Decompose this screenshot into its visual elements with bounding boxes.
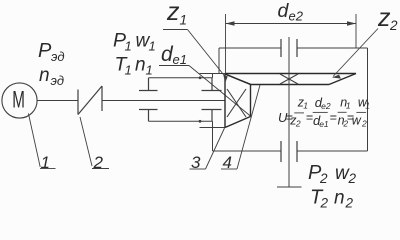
bevel wheel 4 outline [225,74,356,85]
svg-text:3: 3 [191,153,201,172]
label z2 with leader [332,4,398,79]
label P_ed [38,40,65,64]
bearing left upper [139,78,158,91]
housing step top horizontal [200,73,226,75]
dimension d_e2 extension right [355,14,357,48]
housing frame top line [149,77,213,79]
svg-text:2: 2 [345,196,354,210]
label n_ed [39,65,64,88]
label n2 [334,188,354,211]
label w2 [335,163,357,186]
svg-text:n: n [334,188,345,209]
svg-text:1: 1 [146,63,153,78]
dimension arrow right [347,21,356,25]
label w1 [136,31,156,54]
formula fraction bars [294,111,366,114]
svg-text:1: 1 [125,39,132,54]
svg-text:4: 4 [223,153,232,172]
coupling 2 diagonal [78,86,102,115]
node junction top [199,76,202,79]
wire shaft motor to coupling [37,100,78,102]
housing frame bottom line [149,120,213,122]
bearing top of vertical shaft [281,39,297,57]
svg-text:z: z [377,4,391,32]
bearing left lower [139,110,158,122]
node junction bottom [199,120,202,123]
svg-text:2: 2 [295,118,301,128]
leader and label 1 (motor) [28,113,55,172]
motor circle 1 [2,83,37,118]
svg-text:1: 1 [41,153,50,172]
dimension d_e2 extension left [225,14,227,74]
svg-text:эд: эд [51,49,65,64]
svg-text:n: n [39,65,50,86]
svg-text:=: = [330,110,337,124]
svg-text:n: n [135,55,146,76]
svg-text:M: M [12,87,25,113]
housing step top vertical [212,74,214,78]
label z1 with underline and leader [163,0,228,83]
dimension arrow left [226,21,235,25]
svg-text:w: w [352,113,362,127]
label d_e1 with underline and leader [159,43,251,117]
bearing bottom of vertical shaft [281,141,297,162]
leader and label 3 (pinion shaft) [190,128,225,172]
output shaft end bar [277,186,302,188]
svg-text:2: 2 [93,153,104,172]
coupling 2 left bar [77,90,79,115]
bearing right upper [202,78,222,91]
label T2 [310,187,329,211]
label T1 [115,54,132,78]
svg-text:e2: e2 [289,9,304,24]
svg-text:1: 1 [149,39,156,54]
dimension d_e2 line [226,23,357,25]
svg-text:1: 1 [180,13,188,28]
formula U = z1/z2 = de2/de1 = n1/n2 = w1/w2 [278,95,370,129]
housing wall left of top bearing [218,48,220,74]
wheel X mark [280,74,298,84]
label P1 [113,30,132,54]
svg-text:1: 1 [303,101,308,111]
svg-text:эд: эд [51,73,65,88]
bevel pinion 3 outline [225,74,251,128]
svg-text:1: 1 [365,100,370,110]
svg-text:P: P [38,40,52,62]
label d_e2 [278,0,304,23]
bearing top right arm [297,47,368,49]
svg-text:2: 2 [348,171,357,186]
svg-text:1: 1 [125,63,132,78]
housing step bottom vertical [212,121,214,151]
wire vertical output shaft [288,37,290,187]
svg-text:1: 1 [346,101,351,111]
bearing bottom right arm [297,150,368,152]
leader and label 2 (coupling) [80,117,109,172]
leader and label 4 (wheel) [221,85,260,172]
bearing right lower [202,110,222,122]
housing step bottom horizontal [200,127,226,129]
svg-text:z: z [166,0,180,26]
label P2 [308,162,328,186]
svg-text:2: 2 [389,18,398,33]
svg-text:2: 2 [319,171,328,186]
bearing bottom left arm [213,150,282,152]
coupling 2 right bar [101,86,103,111]
svg-text:e1: e1 [173,52,187,67]
pinion X mark [227,89,246,117]
housing right wall [367,48,369,151]
svg-text:e1: e1 [319,119,329,129]
wire input shaft [102,100,225,102]
svg-text:2: 2 [320,196,329,210]
bearing top left arm [219,47,281,49]
svg-text:2: 2 [361,118,367,128]
label n1 [135,55,153,78]
